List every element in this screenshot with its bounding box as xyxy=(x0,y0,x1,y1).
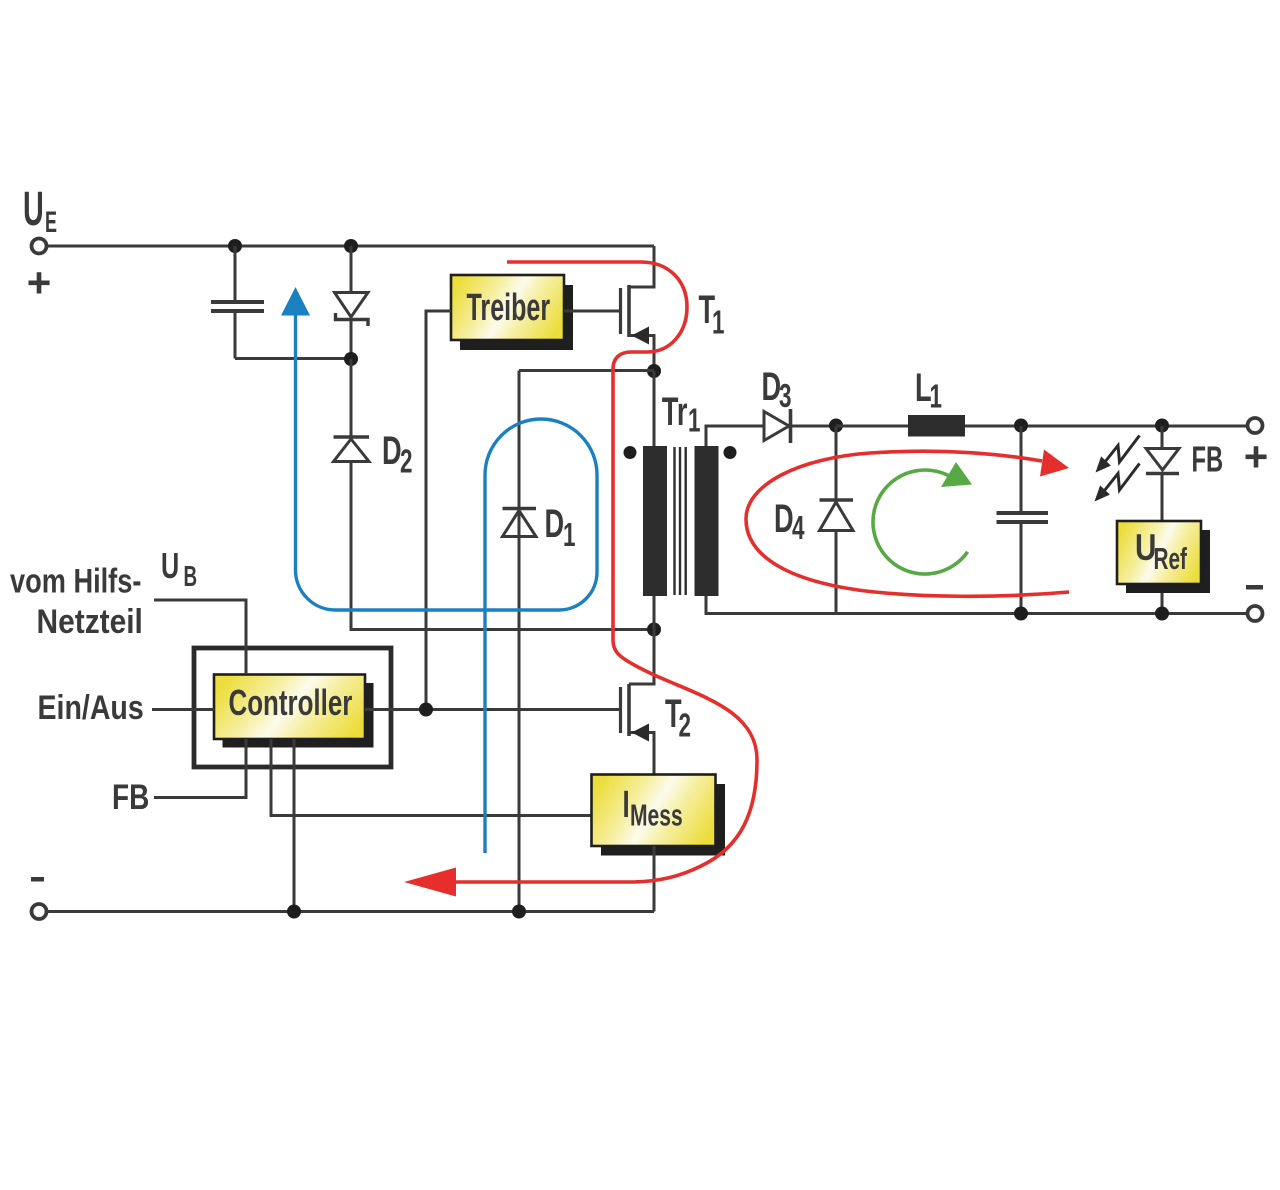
terminal UE + xyxy=(32,239,47,254)
wire: T1 source junction to D1 branch xyxy=(519,369,654,372)
wire: controller pin to ground rail xyxy=(293,739,296,912)
label minus left xyxy=(31,877,44,882)
svg-text:Ref: Ref xyxy=(1154,541,1188,576)
svg-text:vom Hilfs-: vom Hilfs- xyxy=(10,562,141,601)
wire: secondary bottom lead to output rail xyxy=(706,596,1247,614)
svg-text:U: U xyxy=(23,183,44,236)
wire: IMess bottom to ground rail xyxy=(653,846,656,912)
svg-text:+: + xyxy=(1244,433,1269,480)
svg-text:Controller: Controller xyxy=(229,683,353,723)
diode D4 (freewheel) xyxy=(820,426,854,614)
Controller box shadow xyxy=(223,683,374,748)
terminal output minus xyxy=(1248,606,1263,621)
label minus right xyxy=(1246,585,1263,590)
IMess box shadow xyxy=(601,784,725,856)
light arrow 2 xyxy=(1105,464,1140,491)
label URef xyxy=(1135,528,1187,576)
diode D1 xyxy=(503,509,537,537)
svg-text:2: 2 xyxy=(400,442,412,479)
transformer Tr1 core xyxy=(675,447,686,595)
wire: junction down to T2 drain xyxy=(629,630,654,685)
wire: FB input xyxy=(154,739,246,798)
svg-text:I: I xyxy=(623,783,630,825)
controller outer frame xyxy=(194,648,391,767)
terminal output plus xyxy=(1248,418,1263,433)
wire: controller output to T2 gate xyxy=(365,708,620,711)
transformer Tr1 secondary winding xyxy=(695,446,719,596)
inductor L1 xyxy=(908,415,965,437)
svg-text:Tr: Tr xyxy=(662,390,688,434)
svg-text:E: E xyxy=(45,207,57,240)
capacitor C (input) xyxy=(211,246,351,359)
label L1 xyxy=(915,366,942,415)
svg-text:Mess: Mess xyxy=(630,797,683,832)
reference box URef xyxy=(1117,521,1201,584)
red secondary current loop xyxy=(746,451,1069,596)
red arrowhead right xyxy=(1040,450,1069,477)
URef box shadow xyxy=(1126,530,1210,593)
wire: UB feed xyxy=(154,600,246,674)
svg-text:1: 1 xyxy=(930,377,942,414)
svg-text:FB: FB xyxy=(112,777,149,817)
blue arrowhead xyxy=(281,287,310,316)
node: primary bottom junction xyxy=(647,623,661,637)
node: junction zener top xyxy=(344,239,358,253)
node: junction zener/D2/cap xyxy=(344,352,358,366)
polarity dot secondary xyxy=(724,446,737,459)
node: junction top rail / capacitor xyxy=(228,239,242,253)
diode D2 xyxy=(334,359,370,630)
wire: top input rail xyxy=(47,245,654,248)
svg-text:D: D xyxy=(762,365,782,409)
node: junction cap bottom xyxy=(1014,607,1028,621)
wire: primary top lead xyxy=(653,371,656,446)
wire: D2 bottom to primary-bottom junction xyxy=(351,628,654,631)
label D3 xyxy=(762,365,792,414)
green arrowhead xyxy=(941,462,972,487)
red primary current path xyxy=(455,262,757,882)
label UB xyxy=(161,546,197,594)
svg-text:2: 2 xyxy=(679,706,691,743)
node: junction FB top xyxy=(1155,419,1169,433)
node: junction controller/Treiber/T2 xyxy=(419,703,433,717)
svg-text:U: U xyxy=(161,546,179,587)
svg-text:D: D xyxy=(774,497,794,541)
arrow on T1 source xyxy=(632,327,650,345)
svg-text:Netzteil: Netzteil xyxy=(37,602,143,640)
wire: Treiber left lead down to controller output node xyxy=(426,311,451,710)
wire: Treiber to T1 gate xyxy=(564,310,620,313)
node: junction D3/D4 xyxy=(829,419,843,433)
diode D3 xyxy=(764,409,836,443)
node: junction ground/controller xyxy=(287,905,301,919)
light arrow 1 xyxy=(1105,436,1140,463)
svg-text:D: D xyxy=(382,429,402,473)
transistor T2 (MOSFET) xyxy=(621,684,655,774)
polarity dot primary xyxy=(624,446,637,459)
label D1 xyxy=(545,502,576,553)
label T1 xyxy=(699,288,725,341)
red arrowhead left xyxy=(404,868,456,897)
label UE xyxy=(23,183,57,240)
wire: Ein/Aus input xyxy=(152,708,214,711)
wire: D3 junction to L1 xyxy=(836,425,908,428)
green circulating arrow xyxy=(873,470,968,574)
zener diode (clamp) xyxy=(335,246,369,359)
svg-text:3: 3 xyxy=(779,377,791,414)
svg-text:+: + xyxy=(27,259,52,306)
LED FB (optocoupler diode) xyxy=(1146,426,1179,521)
node: junction output cap xyxy=(1014,419,1028,433)
node: junction ground/D1 xyxy=(512,905,526,919)
svg-text:B: B xyxy=(184,561,198,593)
wire: bottom ground rail xyxy=(47,910,654,913)
label IMess xyxy=(623,783,683,832)
driver box Treiber xyxy=(451,275,564,340)
current sense box IMess xyxy=(592,775,716,847)
label Tr1 xyxy=(662,390,701,439)
svg-text:FB: FB xyxy=(1192,440,1224,480)
Treiber box shadow xyxy=(460,285,573,350)
label D4 xyxy=(774,497,805,546)
node: junction URef bottom xyxy=(1155,607,1169,621)
wire: secondary top lead to D3 xyxy=(706,426,764,446)
blue current path xyxy=(296,315,598,853)
svg-text:1: 1 xyxy=(688,401,700,438)
wire: D1 vertical line xyxy=(518,371,521,912)
label D2 xyxy=(382,429,412,480)
terminal minus left xyxy=(32,904,47,919)
svg-text:4: 4 xyxy=(792,509,805,546)
wire: controller pin to IMess xyxy=(271,739,592,816)
svg-text:Treiber: Treiber xyxy=(467,286,551,328)
svg-text:Ein/Aus: Ein/Aus xyxy=(38,689,144,727)
arrow on T2 source xyxy=(632,724,650,742)
capacitor output xyxy=(997,426,1049,614)
node: T1 source junction xyxy=(647,364,661,378)
transistor T1 (MOSFET) xyxy=(621,246,655,371)
svg-text:D: D xyxy=(545,502,565,546)
label T2 xyxy=(665,692,691,744)
controller box U1 xyxy=(214,675,365,740)
wire: primary bottom lead xyxy=(653,596,656,630)
wire: URef bottom lead xyxy=(1161,593,1164,614)
transformer Tr1 primary winding xyxy=(643,446,667,596)
svg-text:1: 1 xyxy=(563,516,575,553)
wire: L1 to output plus xyxy=(965,425,1247,428)
svg-text:1: 1 xyxy=(712,303,724,340)
